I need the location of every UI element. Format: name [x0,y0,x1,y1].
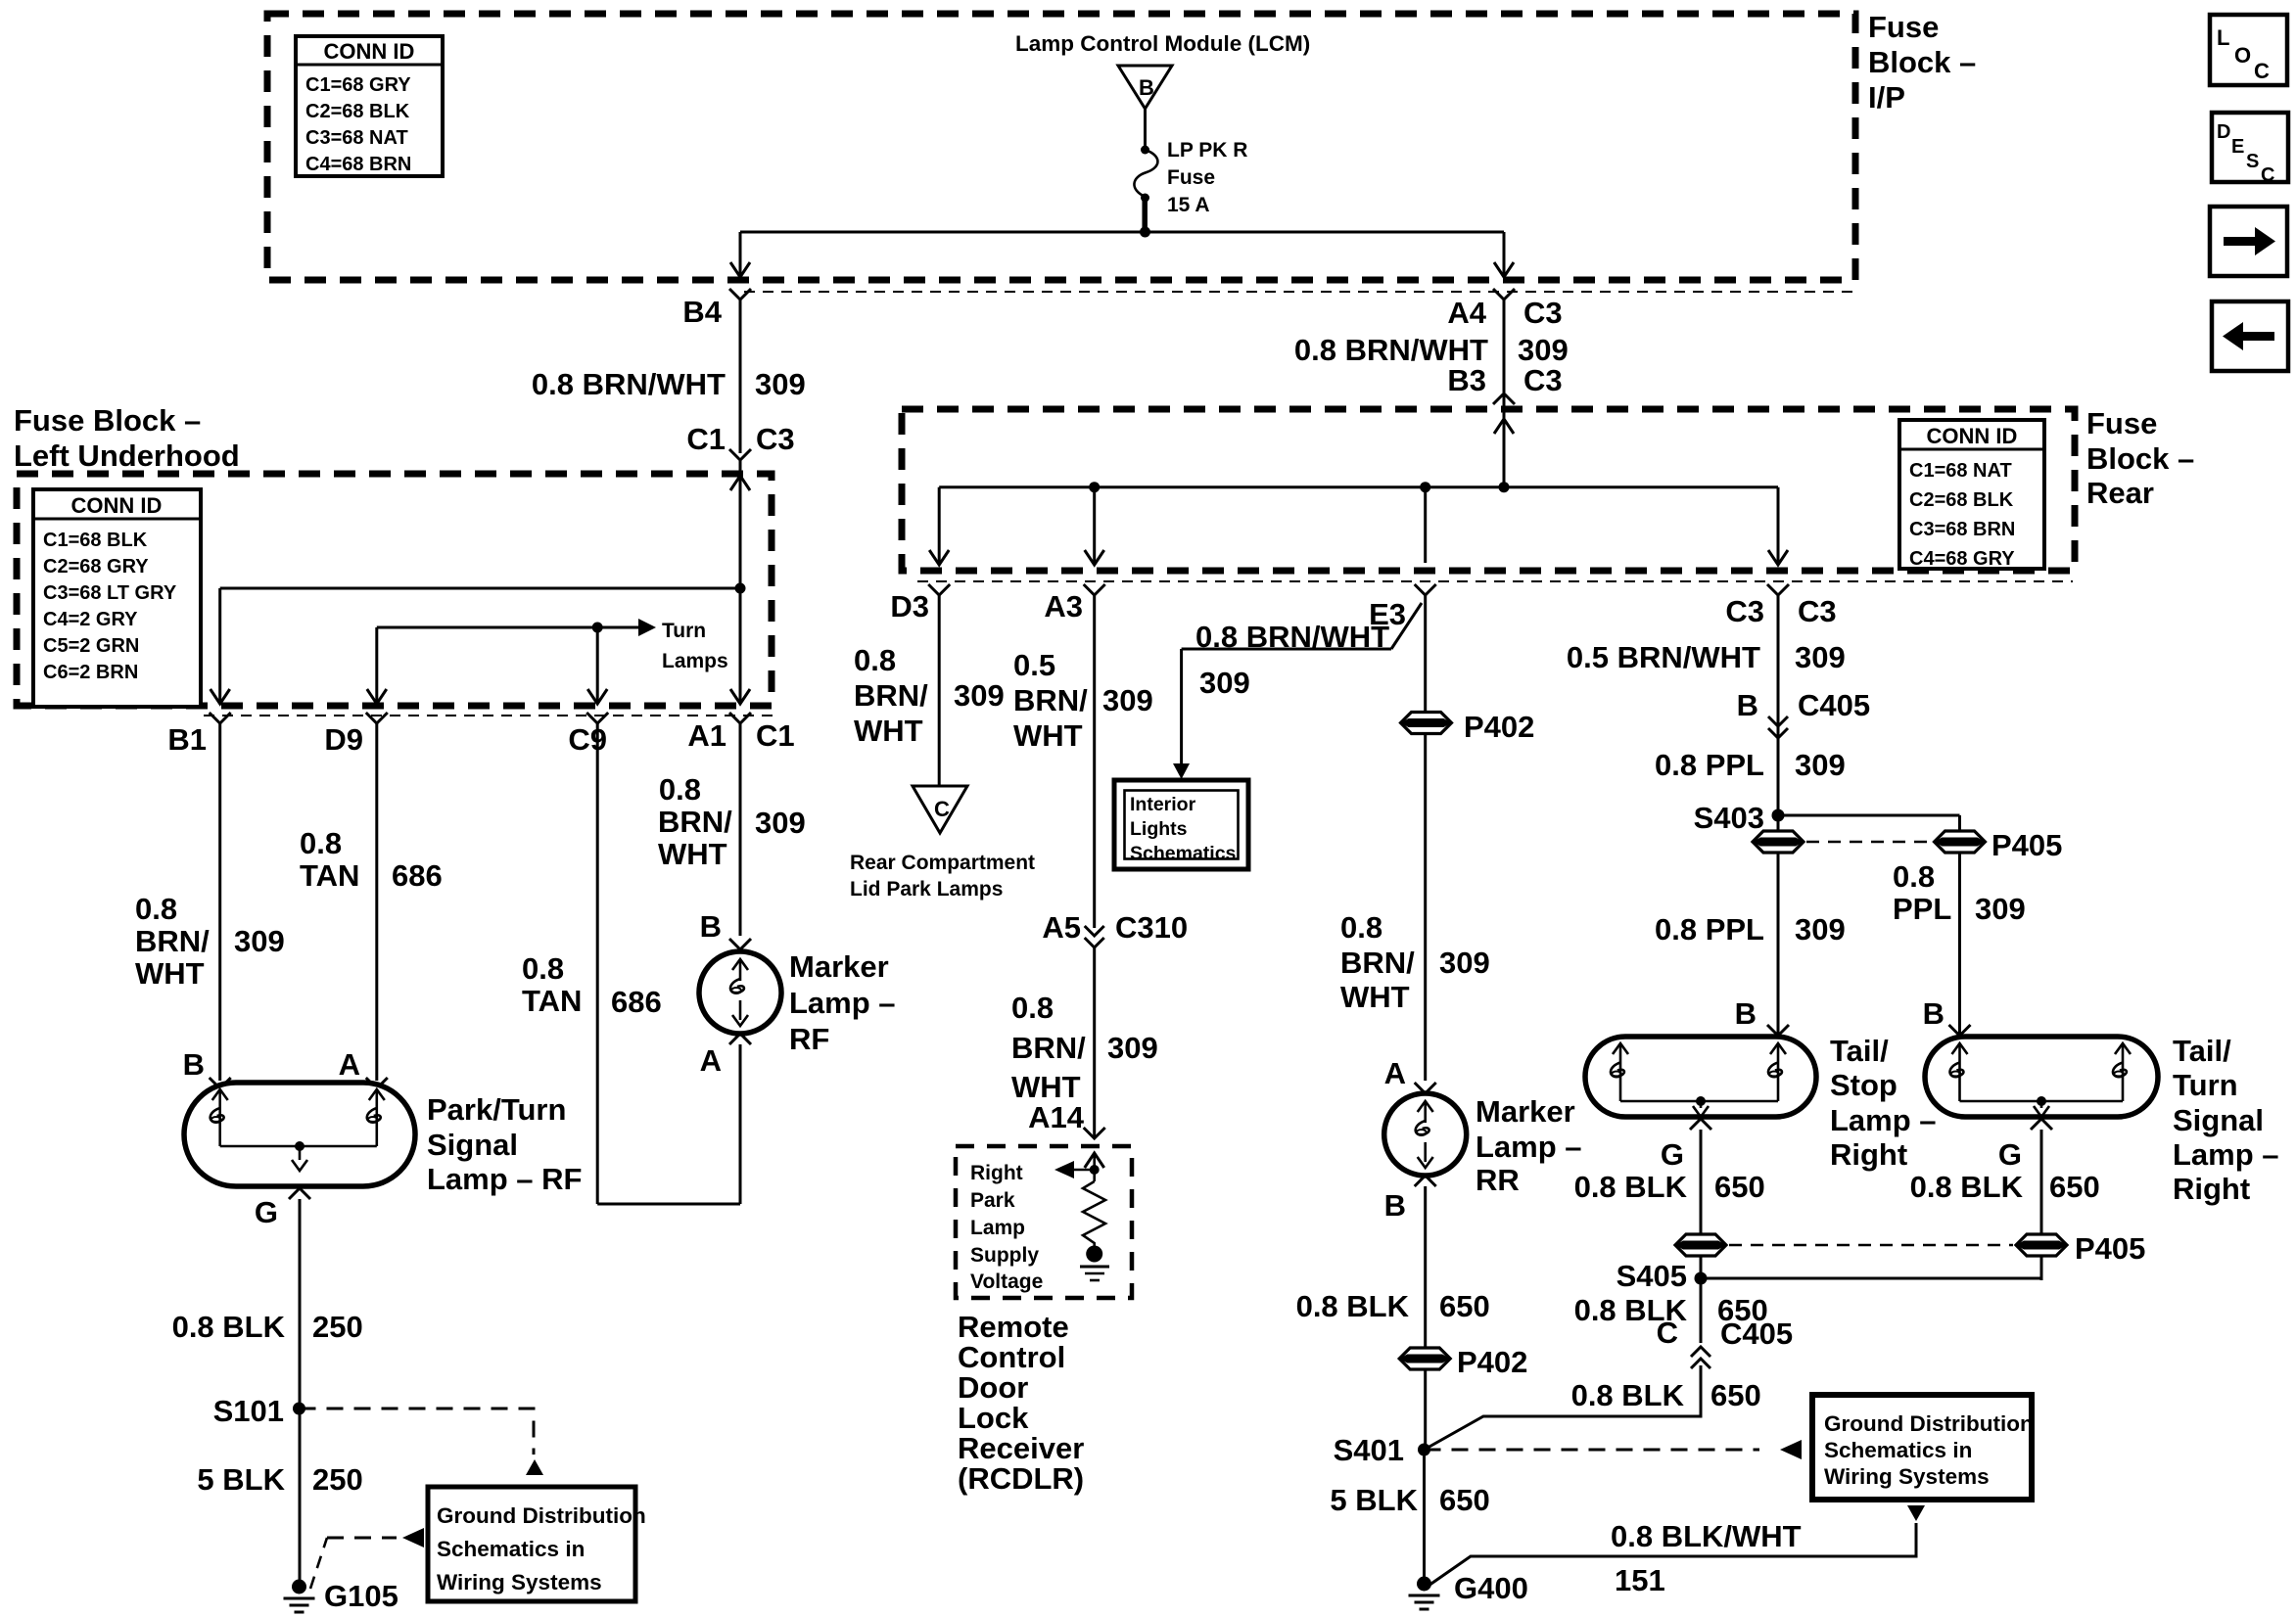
svg-text:250: 250 [312,1462,363,1497]
svg-text:0.8 BLK: 0.8 BLK [1296,1289,1410,1323]
svg-text:B1: B1 [167,722,207,757]
svg-text:650: 650 [1710,1378,1761,1412]
svg-text:Lamp: Lamp [970,1217,1025,1239]
lamp internal common [220,1145,377,1148]
svg-text:0.8 BRN/WHT: 0.8 BRN/WHT [1195,620,1389,654]
svg-text:Lid Park Lamps: Lid Park Lamps [850,878,1003,901]
svg-text:Ground Distribution: Ground Distribution [437,1503,646,1528]
connector Y lamp B [210,1078,231,1088]
lamp junction (tail/turn) [2037,1096,2046,1106]
wire to interior lights [1182,648,1391,651]
Interior Lights Schematics box [1114,780,1248,869]
svg-text:Lamp –: Lamp – [1830,1103,1937,1137]
svg-text:Interior: Interior [1130,794,1196,815]
svg-text:L: L [2217,25,2229,50]
junction in RCDLR [1090,1165,1100,1175]
splice S403 [1772,809,1785,822]
svg-text:Lamp – RF: Lamp – RF [427,1162,582,1196]
Fuse Block Rear dashed box [902,409,2075,571]
wire S403 branch right [1778,814,1960,817]
svg-text:C3: C3 [1725,594,1764,628]
svg-text:Schematics in: Schematics in [437,1537,585,1561]
svg-text:G400: G400 [1454,1571,1528,1605]
svg-text:Fuse: Fuse [1167,166,1215,189]
svg-text:G: G [255,1195,278,1229]
dashed link P405 bottom [1729,1244,2013,1247]
LCM connector triangle B [1118,66,1172,109]
wire drop C3 right [1777,487,1780,563]
svg-text:G: G [1661,1137,1684,1172]
connector Y B3/C3 [1493,393,1515,404]
dashed link to G105 [327,1537,397,1540]
arrow down inside tail/turn [2034,1106,2049,1117]
connector Y B4 [729,289,751,300]
svg-text:C1: C1 [686,422,726,456]
svg-text:P402: P402 [1457,1345,1527,1379]
svg-text:0.8 BLK: 0.8 BLK [1574,1293,1688,1327]
wire 0.8 BLK/WHT 151 [1426,1523,1916,1588]
marker lamp RR bulb [1384,1093,1467,1176]
svg-text:309: 309 [1975,892,2026,926]
pass-through grommet P402 (top) [1401,713,1452,734]
connector interface dashed line (underhood bottom) [204,715,778,716]
arrow down from ground distribution box [1907,1505,1925,1521]
Ground Distribution Schematics box (right) [1812,1395,2032,1500]
svg-text:0.8 BLK/WHT: 0.8 BLK/WHT [1611,1519,1802,1553]
junction on C1 feed [735,583,746,594]
svg-text:0.8: 0.8 [522,951,564,986]
svg-text:650: 650 [1714,1170,1765,1204]
filament arrow up (RF) [732,959,748,970]
svg-text:Schematics: Schematics [1130,843,1237,864]
arrow into C3 [1768,550,1788,565]
svg-text:250: 250 [312,1310,363,1344]
wire S401 to C405 [1425,1365,1702,1450]
wire A1 drop [739,588,742,702]
svg-text:C2=68 BLK: C2=68 BLK [1909,489,2014,511]
wire 0.8 BRN/WHT 309 (D3) [938,595,941,786]
svg-text:0.8: 0.8 [854,643,896,677]
fuse terminal dot [1141,146,1149,155]
svg-text:B3: B3 [1447,363,1486,397]
svg-text:Marker: Marker [1476,1094,1575,1129]
wire D9 drop [375,627,378,702]
connector Y A3 [1084,584,1105,595]
svg-text:WHT: WHT [1340,980,1410,1014]
svg-text:C4=68 BRN: C4=68 BRN [305,154,411,175]
wire 0.8 TAN 686 (C9) down [596,723,599,1204]
svg-text:15 A: 15 A [1167,194,1210,216]
svg-text:C3=68 BRN: C3=68 BRN [1909,519,2015,540]
svg-text:C3=68 LT GRY: C3=68 LT GRY [43,582,177,604]
filament arrow down (RF) [732,1015,748,1026]
filament left (Park/Turn) [212,1089,228,1100]
svg-text:C5=2 GRN: C5=2 GRN [43,635,139,657]
grommet P405 (left top) [1753,831,1804,853]
wire drop A3 [1093,487,1096,563]
filament right (tail/stop) [1770,1043,1786,1054]
wire to supply arrow [1072,1169,1095,1172]
connector Y C3/C3 [1767,584,1789,595]
svg-text:650: 650 [2049,1170,2100,1204]
svg-text:C4=2 GRY: C4=2 GRY [43,609,138,630]
svg-text:C3: C3 [1523,296,1563,330]
svg-text:BRN/: BRN/ [135,924,210,958]
svg-text:CONN ID: CONN ID [1927,424,2018,448]
ground inside RCDLR [1080,1246,1109,1281]
fuse terminal dot [1141,194,1149,203]
dashed link S101 to ground distribution [300,1409,535,1455]
connector C310 [1085,926,1104,947]
arrow into C9 [587,689,607,704]
svg-text:CONN ID: CONN ID [71,493,163,518]
wire drop to A4 [1503,232,1506,275]
svg-text:CONN ID: CONN ID [324,39,415,64]
arrow up inside RCDLR [1085,1153,1104,1168]
svg-text:309: 309 [755,806,806,840]
wire 0.8 BRN/WHT 309 (A5) [1093,947,1096,1138]
svg-text:Receiver: Receiver [958,1431,1084,1465]
svg-text:0.8 BLK: 0.8 BLK [1910,1170,2024,1204]
svg-text:A4: A4 [1447,296,1486,330]
svg-text:0.8 BLK: 0.8 BLK [172,1310,286,1344]
wire 0.8 BLK 650 (marker RR) [1424,1186,1427,1450]
connector Y B1 [210,713,231,723]
wire B1 tap [220,587,740,590]
svg-text:BRN/: BRN/ [1013,683,1088,717]
svg-text:C310: C310 [1115,910,1188,945]
svg-text:TAN: TAN [522,984,582,1018]
arrow left (supply voltage) [1054,1161,1074,1178]
wire 0.8 BRN/WHT 309 to marker RF [739,723,742,936]
svg-text:WHT: WHT [1011,1070,1081,1104]
wire 0.8 BLK 650 (tail/turn G) [2040,1130,2043,1280]
previous page arrow box [2212,301,2288,371]
splice S405 [1695,1272,1708,1285]
svg-text:650: 650 [1439,1483,1490,1517]
svg-text:A: A [1384,1056,1406,1090]
svg-text:C9: C9 [568,722,607,757]
connector Y tail/turn B [1949,1025,1971,1036]
arrow into A4 [1494,262,1514,277]
connector Y tail/stop B [1767,1025,1789,1036]
svg-text:650: 650 [1717,1293,1768,1327]
svg-text:309: 309 [755,367,806,401]
svg-text:Lamp –: Lamp – [2173,1137,2279,1172]
svg-text:Lights: Lights [1130,818,1188,840]
svg-text:G: G [1998,1137,2022,1172]
Fuse Block Left Underhood dashed box [17,474,772,706]
svg-text:Door: Door [958,1370,1028,1405]
svg-text:C3=68 NAT: C3=68 NAT [305,127,408,149]
arrow into A1 [730,689,750,704]
lamp internal common (tail/stop) [1620,1100,1778,1103]
connector Y C1/C3 [729,449,751,460]
wire S405 to tail/turn G [1701,1277,2041,1280]
svg-text:B: B [700,909,722,944]
grommet P405 (left bottom) [1675,1234,1726,1256]
CONN ID table (Rear) [1899,420,2044,570]
svg-text:S403: S403 [1694,801,1764,835]
svg-text:0.8: 0.8 [1340,910,1382,945]
svg-text:Signal: Signal [2173,1103,2264,1137]
wire 0.8 BLK 650 (tail/stop G) [1700,1130,1703,1343]
wire marker RF A to 686 [739,1044,742,1204]
svg-text:C3: C3 [1523,363,1563,397]
svg-text:0.8: 0.8 [300,826,342,860]
wire 0.8 BRN/WHT 309 (E3) [1424,595,1427,1081]
svg-text:C2=68 GRY: C2=68 GRY [43,556,149,577]
junction A3 [1089,482,1100,492]
svg-text:309: 309 [1102,683,1153,717]
bus wire in rear box [939,485,1778,488]
connector interface dashed line (rear bottom) [917,580,2073,582]
svg-text:0.8: 0.8 [135,892,177,926]
svg-text:P402: P402 [1464,710,1534,744]
svg-text:TAN: TAN [300,858,359,893]
arrow into B1 [211,689,230,704]
wire 5 BLK 650 to G400 [1423,1450,1426,1579]
svg-text:BRN/: BRN/ [854,678,928,713]
bus wire in I/P box [740,231,1504,234]
svg-text:Voltage: Voltage [970,1270,1043,1293]
connector triangle C (rear compartment lid park lamps) [913,786,967,833]
svg-text:A14: A14 [1028,1100,1085,1134]
wire 0.5 BRN/WHT 309 (C3) [1777,595,1780,1034]
connector Y A14 [1084,1128,1105,1138]
svg-text:C6=2 BRN: C6=2 BRN [43,662,138,683]
svg-text:Ground Distribution: Ground Distribution [1824,1411,2034,1436]
fuse LP PK R 15A squiggle [1134,150,1157,197]
ground G400 [1409,1577,1440,1610]
arrow up to S101 link [526,1459,543,1475]
connector Y D3 [928,584,950,595]
svg-text:Supply: Supply [970,1244,1039,1267]
connector Y D9 [366,713,388,723]
svg-text:E: E [2231,136,2244,158]
connector Y tail/turn G [2031,1119,2052,1130]
wire into underhood box [739,460,742,588]
svg-text:151: 151 [1615,1563,1665,1597]
svg-text:Park: Park [970,1189,1015,1212]
ground G105 [284,1580,315,1613]
svg-text:WHT: WHT [1013,718,1083,753]
wire B4 to C1 0.8 BRN/WHT 309 [739,300,742,453]
svg-text:Fuse: Fuse [1868,10,1939,44]
svg-text:Schematics in: Schematics in [1824,1438,1972,1462]
svg-text:A5: A5 [1042,910,1081,945]
splice S401 [1418,1444,1430,1456]
connector Y lamp G [289,1188,310,1199]
wire drop to interior lights box [1180,649,1183,765]
Park/Turn Signal Lamp RF housing [184,1083,415,1186]
svg-text:B: B [1735,996,1757,1031]
svg-text:O: O [2234,43,2251,68]
wire C9 to marker lamp A [597,1203,740,1206]
svg-text:C2=68 BLK: C2=68 BLK [305,101,410,122]
splice S101 [293,1403,305,1415]
svg-text:Right: Right [1830,1137,1907,1172]
svg-text:309: 309 [1795,640,1846,674]
Ground Distribution Schematics box (left) [428,1487,635,1601]
junction C9 tap [592,623,603,633]
svg-text:309: 309 [1518,333,1569,367]
svg-text:C405: C405 [1798,688,1870,722]
wire drop D3 [938,487,941,563]
svg-text:S101: S101 [213,1394,284,1428]
svg-text:A: A [700,1043,722,1078]
svg-text:Tail/: Tail/ [2173,1034,2231,1068]
CONN ID table (Left Underhood) [33,489,201,707]
svg-text:Tail/: Tail/ [1830,1034,1889,1068]
filament right (tail/turn) [2115,1043,2131,1054]
svg-text:Rear: Rear [2086,476,2154,510]
svg-text:C4=68 GRY: C4=68 GRY [1909,548,2015,570]
filament left (tail/turn) [1952,1043,1968,1054]
svg-text:0.5: 0.5 [1013,648,1055,682]
lamp internal common (tail/turn) [1960,1100,2124,1103]
svg-text:5 BLK: 5 BLK [197,1462,285,1497]
arrow into B4 [730,262,750,277]
svg-text:686: 686 [392,858,443,893]
wire diagonal to interior lights [1391,603,1422,649]
svg-text:Lamp –: Lamp – [789,986,896,1020]
svg-text:C: C [2261,164,2274,186]
svg-text:BRN/: BRN/ [1011,1031,1086,1065]
svg-text:Block –: Block – [1868,45,1976,79]
svg-text:0.5 BRN/WHT: 0.5 BRN/WHT [1567,640,1760,674]
svg-text:PPL: PPL [1893,892,1951,926]
svg-text:Turn: Turn [2173,1068,2238,1102]
svg-text:Fuse Block –: Fuse Block – [14,403,201,438]
svg-text:Marker: Marker [789,949,889,984]
svg-text:Lamps: Lamps [662,650,728,672]
svg-text:0.8 PPL: 0.8 PPL [1655,748,1764,782]
filament left (tail/stop) [1613,1043,1628,1054]
svg-text:A1: A1 [687,718,726,753]
svg-text:0.8 BLK: 0.8 BLK [1571,1378,1685,1412]
svg-text:0.8 PPL: 0.8 PPL [1655,912,1764,947]
junction E3 [1420,482,1430,492]
svg-text:Right: Right [970,1162,1023,1184]
wire drop E3 [1424,487,1427,563]
next page arrow box [2210,207,2287,276]
svg-text:309: 309 [954,678,1005,713]
arrow into rear box [1494,419,1514,434]
wire drop to B4 [739,232,742,275]
arrow into D9 [367,689,387,704]
svg-text:686: 686 [611,985,662,1019]
filament arrow down (RR) [1418,1157,1433,1168]
grommet P405 (right bottom) [2016,1234,2067,1256]
svg-text:LP PK R: LP PK R [1167,139,1247,162]
svg-text:Stop: Stop [1830,1068,1898,1102]
wire 0.5 BRN/WHT 309 (A3) [1093,595,1096,928]
dashed link P405 top [1806,841,1932,844]
connector Y marker RR top [1415,1083,1436,1093]
resistor (lamp load) [1083,1181,1105,1249]
connector Y E3 [1415,584,1436,595]
filament arrow up (RR) [1418,1101,1433,1112]
dashed link S401 to ground distribution [1425,1449,1760,1452]
wire fuse to bus [1142,198,1148,232]
svg-text:RF: RF [789,1022,829,1056]
svg-text:Fuse: Fuse [2086,406,2157,440]
svg-text:B: B [1923,996,1945,1031]
arrow into D3 [929,550,949,565]
svg-text:C: C [2254,59,2270,83]
svg-text:C1: C1 [756,718,795,753]
svg-text:A: A [339,1047,360,1082]
connector Y C9 [586,713,608,723]
svg-text:Park/Turn: Park/Turn [427,1092,566,1127]
pass-through grommet P402 (bottom) [1399,1348,1450,1369]
svg-text:B: B [1384,1188,1406,1223]
wire 0.8 BRN/WHT 309 to lamp B [218,723,221,1081]
connector C405 (C) [1691,1347,1710,1368]
connector Y lamp A [366,1078,388,1088]
svg-text:(RCDLR): (RCDLR) [958,1461,1084,1496]
svg-text:C3: C3 [756,422,795,456]
svg-text:C: C [934,797,950,821]
connector Y tail/stop G [1690,1119,1711,1130]
marker lamp RF bulb [699,951,781,1034]
svg-text:WHT: WHT [854,714,923,748]
arrow down inside lamp [292,1160,307,1171]
connector Y A4/C3 [1493,289,1515,300]
wire 0.8 BLK 250 to G105 [299,1199,302,1582]
svg-text:Lock: Lock [958,1401,1029,1435]
grommet P405 (right top) [1935,831,1986,853]
filament right (Park/Turn) [369,1089,385,1100]
lamp internal junction [295,1141,305,1151]
svg-text:Turn: Turn [662,620,706,642]
svg-text:309: 309 [1199,666,1250,700]
LOC icon box [2210,15,2287,85]
arrow left on G105 link [402,1528,424,1548]
arrow down inside tail/stop [1693,1106,1709,1117]
svg-text:P405: P405 [2075,1231,2145,1266]
svg-text:D9: D9 [324,722,363,757]
svg-text:309: 309 [234,924,285,958]
svg-text:5 BLK: 5 BLK [1330,1483,1418,1517]
Fuse Block I/P dashed box [267,14,1855,280]
svg-text:Wiring Systems: Wiring Systems [437,1570,602,1594]
svg-text:Signal: Signal [427,1128,518,1162]
wire Turn Lamps tap [377,626,638,629]
svg-text:Lamp –: Lamp – [1476,1130,1582,1164]
svg-text:309: 309 [1795,748,1846,782]
svg-text:0.8 BLK: 0.8 BLK [1574,1170,1688,1204]
svg-text:0.8 BRN/WHT: 0.8 BRN/WHT [532,367,726,401]
svg-text:Remote: Remote [958,1310,1069,1344]
wire C9 drop [596,627,599,702]
svg-text:C3: C3 [1798,594,1837,628]
svg-text:Block –: Block – [2086,441,2194,476]
svg-text:S401: S401 [1334,1433,1404,1467]
svg-text:D3: D3 [890,589,929,624]
svg-text:Control: Control [958,1340,1065,1374]
wire 0.8 BRN/WHT 309 (A4-B3) [1503,300,1506,393]
svg-text:WHT: WHT [135,956,205,991]
connector Y marker RF top [729,939,751,949]
wire 0.8 TAN 686 to lamp A [375,723,378,1081]
svg-text:B: B [1139,75,1154,100]
svg-text:Left Underhood: Left Underhood [14,439,240,473]
svg-text:D: D [2217,121,2230,143]
svg-text:Rear Compartment: Rear Compartment [850,852,1035,874]
connector interface dashed line (I/P bottom) [744,291,1853,293]
